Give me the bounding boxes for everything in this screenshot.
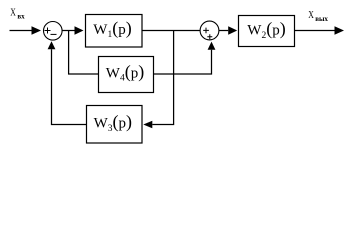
wire W2 output to X_vыx (295, 26, 344, 34)
block W4 (99, 57, 154, 93)
wire S1 output to W1 (62, 26, 84, 34)
svg-text:W2(p): W2(p) (247, 19, 285, 41)
wire tap node A down to W4 input (69, 31, 99, 75)
wire input X_vх to summing junction S1 (10, 26, 42, 34)
svg-text:вх: вх (17, 12, 25, 20)
wire W3 output left and up into summing junction S1 (48, 41, 87, 124)
wire tap node B down to W3 input (143, 31, 173, 129)
svg-text:W3(p): W3(p) (94, 112, 132, 134)
svg-text:X: X (10, 7, 16, 18)
svg-text:вых: вых (315, 15, 328, 23)
wire S2 output to W2 (219, 26, 237, 34)
block W3 (87, 106, 143, 144)
svg-text:X: X (308, 9, 314, 20)
svg-text:W1(p): W1(p) (93, 18, 131, 40)
svg-text:W4(p): W4(p) (106, 61, 144, 83)
summing junction S2 (200, 21, 219, 40)
node X_вх input label (10, 7, 25, 21)
summing junction S1 (44, 22, 63, 41)
wire W4 output up into summing junction S2 (153, 42, 215, 74)
block W1 (86, 15, 143, 48)
block W2 (239, 16, 295, 47)
wire W1 output to summing junction S2 (142, 30, 201, 32)
node X_вых output label (308, 9, 328, 23)
